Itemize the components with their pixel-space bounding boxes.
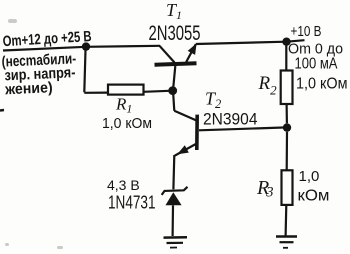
svg-text:2N3055: 2N3055 [149,21,201,45]
svg-text:кОм: кОм [298,188,330,205]
svg-text:T1: T1 [166,0,182,22]
svg-text:2N3904: 2N3904 [203,110,258,129]
svg-text:4,3 В: 4,3 В [107,177,140,193]
svg-text:1,0 кОм: 1,0 кОм [296,76,348,93]
svg-text:1N4731: 1N4731 [108,193,156,213]
svg-text:+10 В: +10 В [291,24,322,40]
svg-text:100 мА: 100 мА [295,56,339,73]
svg-text:1,0 кОм: 1,0 кОм [102,116,152,132]
svg-text:R1: R1 [115,95,132,116]
svg-text:1,0: 1,0 [299,168,320,185]
svg-text:R3: R3 [256,177,273,201]
svg-text:T2: T2 [205,89,221,112]
svg-text:R2: R2 [258,73,278,98]
svg-text:жение): жение) [4,79,53,98]
